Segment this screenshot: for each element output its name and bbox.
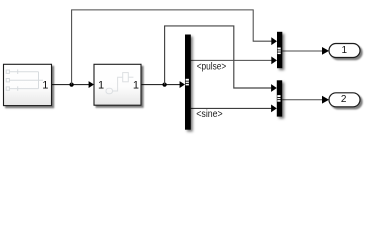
bus badge on Mux1	[278, 48, 281, 55]
svg-text:1: 1	[342, 45, 348, 56]
svg-text:1: 1	[42, 80, 48, 92]
wire: Mux1 output to Outport 1	[282, 47, 329, 55]
block: Outport 1 (oval)	[329, 44, 360, 58]
wire: branch from node A up and over to Mux1 input 1	[72, 10, 277, 85]
wire: Bus Selector output 2 (sine) to Mux2 input 2	[191, 105, 277, 113]
wire: Signal Editor output to Subsystem input	[52, 81, 95, 88]
svg-text:2: 2	[341, 94, 347, 105]
svg-text:<pulse>: <pulse>	[197, 60, 227, 72]
block: Mux1 (top bar)	[277, 32, 282, 68]
junction node B	[162, 82, 166, 86]
block: Outport 2 (oval)	[329, 93, 360, 107]
block: Bus Selector (tall bar)	[185, 35, 191, 130]
bus badge on Bus Selector	[186, 79, 189, 86]
wire: Bus Selector output 1 (pulse) to Mux1 input 2	[191, 57, 277, 65]
bus badge on Mux2	[277, 95, 280, 102]
Subsystem icon	[106, 73, 133, 94]
block: Signal Editor U1	[4, 64, 52, 105]
svg-text:1: 1	[133, 80, 139, 92]
Signal Editor icon rows	[6, 69, 43, 91]
wire: Mux2 output to Outport 2	[282, 96, 329, 104]
svg-text:<sine>: <sine>	[196, 108, 222, 120]
svg-text:1: 1	[98, 80, 104, 92]
junction node A	[69, 82, 73, 86]
wire: Subsystem output to Bus Selector input	[141, 81, 185, 88]
wire: branch from node B up and over to Mux2 input 1	[165, 26, 277, 92]
block: Subsystem U2	[94, 64, 141, 105]
block: Mux2 (bottom bar)	[277, 80, 282, 116]
